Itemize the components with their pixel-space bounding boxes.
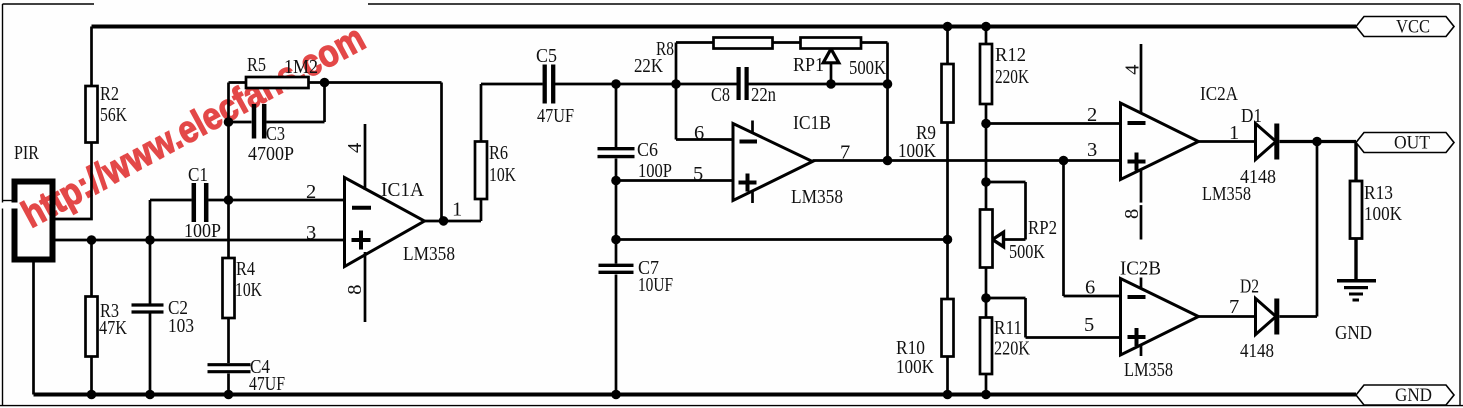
svg-text:RP2: RP2 [1028, 217, 1057, 239]
svg-text:GND: GND [1335, 322, 1372, 344]
svg-text:100K: 100K [898, 140, 936, 162]
svg-text:6: 6 [1085, 277, 1095, 299]
svg-text:5: 5 [1084, 314, 1094, 336]
svg-text:D1: D1 [1241, 105, 1262, 127]
svg-text:100K: 100K [896, 356, 934, 378]
svg-text:1: 1 [452, 199, 462, 221]
svg-text:4148: 4148 [1240, 166, 1276, 188]
svg-text:LM358: LM358 [403, 243, 455, 265]
svg-text:3: 3 [1087, 139, 1097, 161]
svg-text:7: 7 [840, 142, 850, 164]
svg-text:RP1: RP1 [793, 54, 824, 76]
svg-text:C6: C6 [637, 139, 658, 161]
svg-text:220K: 220K [994, 338, 1030, 360]
svg-text:C1: C1 [188, 164, 208, 186]
svg-text:220K: 220K [995, 66, 1029, 88]
svg-text:IC2A: IC2A [1200, 83, 1238, 105]
svg-text:500K: 500K [849, 57, 886, 79]
svg-text:OUT: OUT [1394, 133, 1430, 154]
svg-text:R11: R11 [994, 317, 1022, 339]
svg-text:IC1B: IC1B [793, 112, 831, 134]
svg-text:R2: R2 [100, 83, 119, 105]
svg-text:47K: 47K [99, 317, 127, 339]
svg-text:R12: R12 [995, 44, 1026, 66]
svg-text:6: 6 [694, 122, 704, 144]
svg-text:C5: C5 [536, 45, 557, 67]
svg-text:GND: GND [1395, 385, 1432, 406]
svg-text:IC2B: IC2B [1120, 258, 1161, 280]
svg-text:PIR: PIR [14, 142, 39, 164]
svg-text:LM358: LM358 [1124, 359, 1173, 381]
svg-text:22n: 22n [751, 84, 776, 106]
svg-text:7: 7 [1229, 296, 1239, 318]
svg-text:4700P: 4700P [248, 143, 294, 165]
svg-text:10K: 10K [489, 164, 516, 186]
svg-text:R13: R13 [1364, 182, 1393, 204]
svg-text:8: 8 [1121, 209, 1143, 219]
svg-text:10UF: 10UF [638, 274, 673, 296]
svg-text:C8: C8 [711, 84, 730, 106]
svg-text:3: 3 [306, 222, 316, 244]
svg-text:IC1A: IC1A [381, 179, 424, 201]
svg-text:8: 8 [344, 285, 366, 295]
svg-text:R6: R6 [489, 142, 508, 164]
svg-text:R4: R4 [236, 258, 255, 280]
svg-text:100P: 100P [184, 220, 221, 242]
svg-text:2: 2 [306, 181, 316, 203]
svg-text:47UF: 47UF [249, 373, 285, 395]
svg-text:4148: 4148 [1240, 340, 1274, 362]
svg-text:10K: 10K [235, 279, 262, 301]
svg-text:VCC: VCC [1396, 17, 1430, 38]
svg-text:103: 103 [168, 315, 194, 337]
svg-text:4: 4 [1122, 65, 1144, 75]
svg-text:LM358: LM358 [791, 186, 843, 208]
svg-text:C3: C3 [266, 123, 285, 145]
svg-text:1: 1 [1229, 122, 1239, 144]
svg-text:1M2: 1M2 [284, 56, 318, 78]
svg-text:100P: 100P [638, 160, 672, 182]
svg-text:100K: 100K [1364, 203, 1402, 225]
svg-text:4: 4 [344, 143, 366, 153]
svg-text:D2: D2 [1240, 276, 1259, 298]
svg-text:5: 5 [693, 163, 703, 185]
svg-text:47UF: 47UF [537, 105, 574, 127]
svg-text:500K: 500K [1009, 241, 1045, 263]
svg-text:R5: R5 [247, 54, 266, 76]
svg-text:2: 2 [1087, 104, 1097, 126]
svg-text:22K: 22K [634, 55, 663, 77]
svg-text:56K: 56K [100, 104, 127, 126]
